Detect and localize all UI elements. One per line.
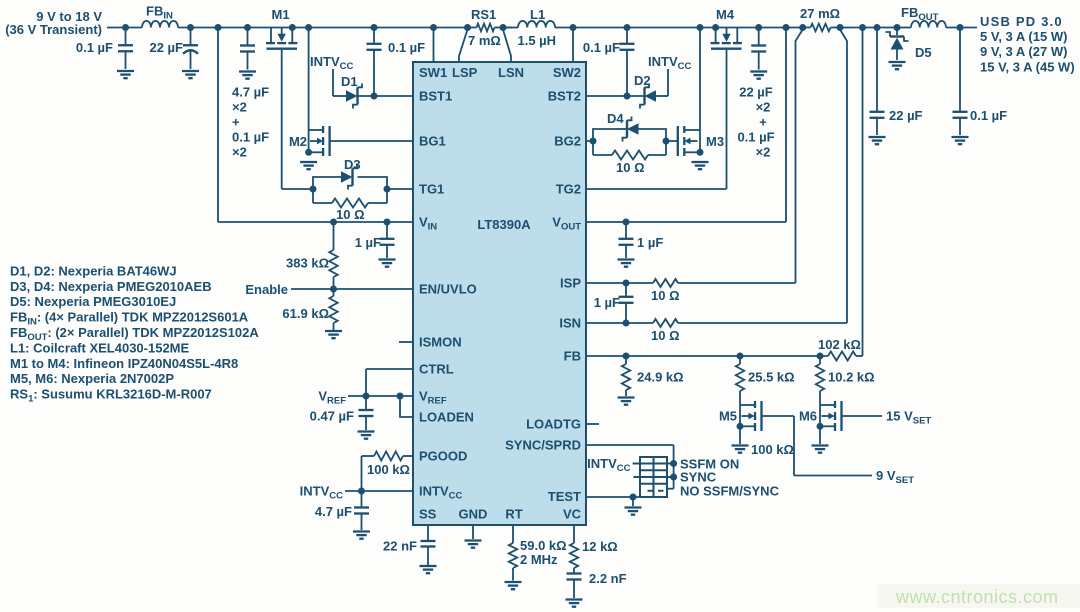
pin VC (563, 507, 582, 522)
pin LOADTG (526, 417, 581, 432)
node E (305, 24, 312, 31)
svg-text:0.1 µF: 0.1 µF (388, 40, 425, 55)
svg-text:VC: VC (563, 507, 582, 522)
wire M6 gate 15VSET (842, 415, 883, 417)
svg-text:LOADEN: LOADEN (419, 410, 474, 425)
svg-text:10 Ω: 10 Ω (336, 207, 365, 222)
node SSFM (670, 460, 677, 467)
svg-text:10 Ω: 10 Ω (651, 328, 680, 343)
wire FB (586, 355, 863, 357)
pin FB (564, 349, 581, 364)
node EN (330, 286, 337, 293)
svg-text:0.1 µF: 0.1 µF (583, 40, 620, 55)
watermark band (878, 584, 1080, 608)
node FB b (737, 353, 744, 360)
pin BST1 (419, 89, 452, 104)
resistor RT 59k (509, 525, 567, 581)
wire M1 gate (281, 50, 283, 189)
svg-text:1 µF: 1 µF (637, 235, 663, 250)
capacitor 4.7uF x2 input (240, 28, 255, 70)
svg-text:10 Ω: 10 Ω (616, 160, 645, 175)
capacitor 0.1uF out (953, 28, 1008, 136)
pin TEST (548, 489, 581, 504)
svg-text:Enable: Enable (245, 282, 288, 297)
svg-text:FB: FB (564, 349, 581, 364)
node D (244, 24, 251, 31)
inductor L1 (503, 7, 557, 48)
svg-text:5 V, 3 A (15 W): 5 V, 3 A (15 W) (980, 29, 1067, 44)
capacitor 22uF input (149, 28, 198, 70)
node INTVCC (358, 488, 365, 495)
svg-text:EN/UVLO: EN/UVLO (419, 282, 477, 297)
wire BG2 to M3 (666, 140, 678, 142)
ground (566, 600, 583, 607)
pin CTRL (419, 362, 454, 377)
label SYNC (680, 470, 717, 485)
capacitor 1uF VOUT (619, 222, 664, 258)
wire SW1 stub (433, 28, 435, 63)
svg-text:0.1 µF: 0.1 µF (76, 40, 113, 55)
wire BST2 (586, 95, 645, 97)
svg-text:100 kΩ: 100 kΩ (367, 462, 410, 477)
ground (692, 162, 709, 169)
svg-text:BG2: BG2 (554, 134, 581, 149)
capacitor 0.1uF BST2 (583, 28, 635, 97)
wire BST1 (374, 95, 413, 97)
svg-text:PGOOD: PGOOD (419, 449, 467, 464)
label NO SSFM/SYNC (680, 484, 780, 499)
svg-text:SS: SS (419, 507, 437, 522)
svg-text:22 µF: 22 µF (889, 108, 923, 123)
svg-text:4.7 µF: 4.7 µF (315, 504, 352, 519)
svg-text:M5: M5 (719, 409, 737, 424)
wire M6 source gnd (819, 426, 821, 444)
svg-text:LOADTG: LOADTG (526, 417, 581, 432)
pin VIN (419, 215, 437, 233)
wire VIN drop (217, 28, 219, 223)
node SW2 top (570, 24, 577, 31)
wire VOUT (586, 221, 786, 223)
wire ISN (586, 322, 847, 324)
label Enable (245, 282, 288, 297)
pin INTVCC (419, 484, 462, 502)
svg-text:4.7 µF: 4.7 µF (232, 85, 269, 100)
svg-text:SYNC/SPRD: SYNC/SPRD (505, 438, 581, 453)
svg-text:×2: ×2 (756, 145, 771, 160)
svg-text:M2: M2 (289, 134, 307, 149)
capacitor 4.7uF (315, 491, 369, 530)
svg-text:59.0 kΩ: 59.0 kΩ (520, 538, 567, 553)
capacitor 1uF VIN (355, 222, 395, 258)
ground (505, 582, 522, 589)
node VOUT cap (623, 219, 630, 226)
svg-text:27 mΩ: 27 mΩ (800, 6, 840, 21)
wire PGOOD drop (361, 456, 363, 491)
node L (894, 24, 901, 31)
node VREF a (363, 393, 370, 400)
node M5 source (737, 423, 744, 430)
pin TG2 (556, 182, 581, 197)
ground (358, 432, 375, 439)
ground (379, 260, 396, 267)
svg-text:2.2 nF: 2.2 nF (589, 571, 627, 586)
svg-text:M3: M3 (706, 134, 724, 149)
node BG2 left (590, 138, 597, 145)
node TG1 right (384, 186, 391, 193)
ground (239, 72, 256, 79)
wire INTVCC stub D2 (667, 69, 669, 96)
transistor M5 (719, 391, 762, 431)
pin GND (459, 507, 488, 522)
transistor M4 (711, 7, 742, 49)
svg-text:15 V, 3 A (45 W): 15 V, 3 A (45 W) (980, 60, 1075, 75)
op-amp U1 LT8390A box (413, 62, 586, 525)
node TEST (630, 494, 637, 501)
pin BST2 (548, 89, 581, 104)
node BST2 (624, 93, 631, 100)
diode D2 (634, 73, 668, 109)
resistor 100k PGOOD (362, 452, 414, 478)
pin LSP (452, 65, 478, 80)
resistor 102k (818, 337, 861, 361)
svg-text:M1 to M4: Infineon IPZ40N04S5L: M1 to M4: Infineon IPZ40N04S5L-4R8 (10, 356, 238, 371)
capacitor 0.1uF input (76, 28, 133, 70)
node M (957, 24, 964, 31)
node RS1 right (500, 24, 507, 31)
wire M5 source gnd (739, 426, 741, 444)
node TG1 left (310, 186, 317, 193)
pin SW1 (419, 65, 447, 80)
svg-text:D5: D5 (915, 45, 932, 60)
svg-text:×2: ×2 (232, 145, 247, 160)
svg-text:M1: M1 (272, 7, 290, 22)
label INTVCC left (300, 484, 343, 502)
node M6 source (817, 423, 824, 430)
svg-text:LSP: LSP (452, 65, 478, 80)
network D3 frame (313, 177, 387, 203)
label output (980, 14, 1075, 75)
wire Enable (291, 288, 413, 290)
svg-text:L1: L1 (530, 7, 545, 22)
diode D1 (341, 74, 374, 109)
wire SYNC/SPRD (586, 445, 674, 489)
label 9VSET (876, 468, 914, 486)
ferrite bead FBOUT (901, 5, 946, 28)
pin PGOOD (419, 449, 467, 464)
svg-text:1 µF: 1 µF (594, 295, 620, 310)
node BG2 right (663, 138, 670, 145)
wire 102k drop (862, 28, 864, 357)
svg-text:10.2 kΩ: 10.2 kΩ (828, 370, 875, 385)
capacitor 22uF out (870, 28, 923, 136)
svg-text:1 µF: 1 µF (355, 235, 381, 250)
capacitor 1uF ISP-ISN (594, 283, 634, 323)
svg-text:CTRL: CTRL (419, 362, 454, 377)
wire INTVCC stub D1 (333, 69, 346, 96)
svg-text:1.5 µH: 1.5 µH (518, 33, 557, 48)
svg-text:×2: ×2 (756, 100, 771, 115)
capacitor 2.2nF (567, 568, 627, 598)
label 15VSET (886, 409, 931, 427)
svg-text:ISP: ISP (560, 276, 581, 291)
svg-text:RS1: RS1 (471, 7, 496, 22)
watermark text (895, 587, 1059, 607)
node G (624, 24, 631, 31)
transistor M1 (266, 7, 297, 49)
ferrite bead FBIN (142, 4, 178, 28)
node input A (122, 24, 129, 31)
node M3 source (697, 149, 704, 156)
transistor M2 (289, 126, 330, 156)
label VREF (318, 389, 346, 407)
diode D5 (886, 28, 932, 61)
pin BG2 (554, 134, 581, 149)
node ISN (623, 320, 630, 327)
wire VREF (348, 395, 413, 397)
svg-text:LSN: LSN (498, 65, 524, 80)
node J (859, 24, 866, 31)
svg-text:D1: D1 (341, 74, 358, 89)
wire M5 gate 9VSET (762, 416, 873, 476)
svg-text:ISN: ISN (559, 316, 581, 331)
svg-text:22 µF: 22 µF (739, 85, 773, 100)
jumper block (633, 457, 674, 497)
diode D3 (341, 157, 361, 190)
pin BG1 (419, 134, 446, 149)
wire SW2 stub (572, 28, 574, 63)
label 4.7uF x2 + 0.1uF x2 (232, 85, 269, 160)
wire INTVCC (345, 490, 413, 492)
capacitor 22nF SS (383, 525, 435, 565)
svg-text:D5: Nexperia PMEG3010EJ: D5: Nexperia PMEG3010EJ (10, 294, 176, 309)
resistor 61.9k (282, 289, 337, 330)
ground (889, 62, 906, 69)
svg-text:D3, D4: Nexperia PMEG2010AEB: D3, D4: Nexperia PMEG2010AEB (10, 279, 212, 294)
svg-text:GND: GND (459, 507, 488, 522)
ground (732, 446, 749, 453)
pin SYNC/SPRD (505, 438, 581, 453)
pin LSN (498, 65, 524, 80)
ground (618, 260, 635, 267)
svg-text:USB PD 3.0: USB PD 3.0 (980, 14, 1063, 29)
node F (371, 24, 378, 31)
pin SS (419, 507, 437, 522)
pin EN/UVLO (419, 282, 477, 297)
svg-text:BST2: BST2 (548, 89, 581, 104)
ground (812, 446, 829, 453)
svg-text:L1: Coilcraft XEL4030-152ME: L1: Coilcraft XEL4030-152ME (10, 340, 190, 355)
svg-text:10 Ω: 10 Ω (651, 288, 680, 303)
svg-text:+: + (759, 115, 767, 130)
wire input rail left (107, 27, 142, 29)
resistor 10R ISP (651, 279, 680, 303)
svg-text:383 kΩ: 383 kΩ (286, 256, 329, 271)
wire BG2 (586, 140, 593, 142)
resistor 10R BG2 (593, 151, 666, 176)
ground (625, 508, 642, 515)
label INTVCC D1 (310, 54, 353, 72)
ground (869, 137, 886, 144)
transistor M3 (678, 126, 724, 156)
node M1 source (289, 24, 296, 31)
resistor VC 12k (570, 525, 618, 568)
node FB c (817, 353, 824, 360)
svg-text:www.cntronics.com: www.cntronics.com (895, 587, 1059, 607)
svg-text:0.1 µF: 0.1 µF (232, 130, 269, 145)
resistor 383k (286, 222, 338, 289)
svg-text:0.1 µF: 0.1 µF (970, 108, 1007, 123)
capacitor 22uF x2 output (751, 28, 766, 70)
node RS1 left (464, 24, 471, 31)
component list (10, 263, 259, 404)
svg-text:SW1: SW1 (419, 65, 447, 80)
label SSFM ON (680, 457, 739, 472)
svg-text:7 mΩ: 7 mΩ (468, 33, 501, 48)
svg-text:RT: RT (505, 507, 522, 522)
node K (874, 24, 881, 31)
node SW1 top (430, 24, 437, 31)
ground (618, 398, 635, 405)
wire ISMON stub (399, 341, 413, 343)
wire CTRL (366, 369, 413, 396)
label INTVCC jumper (587, 456, 630, 474)
wire M3 drain (699, 28, 701, 153)
pin VREF (419, 389, 447, 407)
svg-text:D4: D4 (607, 111, 624, 126)
svg-text:TEST: TEST (548, 489, 581, 504)
node 27m left (799, 24, 806, 31)
resistor 10R TG1 (313, 199, 387, 223)
svg-text:0.1 µF: 0.1 µF (737, 130, 774, 145)
wire TG1 (387, 188, 413, 190)
node M2 source (305, 149, 312, 156)
svg-text:D1, D2: Nexperia BAT46WJ: D1, D2: Nexperia BAT46WJ (10, 263, 177, 278)
svg-text:LT8390A: LT8390A (477, 217, 531, 232)
svg-text:NO SSFM/SYNC: NO SSFM/SYNC (680, 484, 780, 499)
ground (750, 72, 767, 79)
pin RT (505, 507, 522, 522)
wire TG1 left (282, 188, 313, 190)
ground (117, 71, 134, 78)
svg-text:24.9 kΩ: 24.9 kΩ (637, 370, 684, 385)
svg-text:TG1: TG1 (419, 182, 444, 197)
label 22uF x2 + 0.1uF x2 (737, 85, 774, 160)
node VIN divider (330, 219, 337, 226)
svg-text:+: + (232, 115, 240, 130)
node I (755, 24, 762, 31)
node ISP (623, 280, 630, 287)
diode D4 (607, 111, 639, 142)
svg-text:(36 V Transient): (36 V Transient) (5, 22, 102, 37)
wire LSN kelvin (503, 30, 511, 63)
svg-text:M5, M6: Nexperia 2N7002P: M5, M6: Nexperia 2N7002P (10, 371, 174, 386)
node SYNC (670, 474, 677, 481)
resistor 10R ISN (651, 319, 680, 343)
pin TG1 (419, 182, 444, 197)
wire ISP (586, 282, 796, 284)
node B (187, 24, 194, 31)
pin LOADEN (419, 410, 474, 425)
wire VOUT rise (785, 28, 787, 223)
wire VIN (218, 221, 413, 223)
svg-text:22 nF: 22 nF (383, 539, 417, 554)
svg-text:SYNC: SYNC (680, 470, 717, 485)
wire GND pin (472, 525, 474, 539)
svg-text:100 kΩ: 100 kΩ (751, 442, 794, 457)
network D4 frame (593, 129, 666, 155)
svg-text:M4: M4 (716, 7, 735, 22)
label INTVCC D2 (648, 54, 691, 72)
pin VOUT (552, 215, 581, 233)
ground (182, 71, 199, 78)
svg-text:TG2: TG2 (556, 182, 581, 197)
resistor 27mOhm (800, 6, 840, 31)
ground (353, 532, 370, 539)
wire ISN kelvin (840, 30, 847, 324)
svg-text:61.9 kΩ: 61.9 kΩ (282, 306, 329, 321)
node 27m right (837, 24, 844, 31)
label 100k (751, 442, 794, 457)
ground (420, 566, 437, 573)
svg-text:0.47 µF: 0.47 µF (310, 409, 354, 424)
label LT8390A (477, 217, 531, 232)
node VIN cap (384, 219, 391, 226)
svg-text:BST1: BST1 (419, 89, 452, 104)
svg-text:2 MHz: 2 MHz (520, 552, 558, 567)
ground (325, 331, 342, 338)
node M4 left (712, 24, 719, 31)
ground (300, 162, 317, 169)
resistor RS1 (468, 7, 504, 48)
transistor M6 (799, 391, 842, 431)
pin ISN (559, 316, 581, 331)
wire TEST (586, 496, 640, 498)
svg-text:25.5 kΩ: 25.5 kΩ (748, 370, 795, 385)
resistor 24.9k (622, 356, 684, 396)
wire rail (178, 27, 468, 29)
wire rail end (840, 27, 977, 29)
wire LOADEN (400, 396, 413, 417)
svg-text:M6: M6 (799, 409, 817, 424)
resistor 10.2k (816, 356, 875, 391)
wire LSP kelvin (459, 30, 468, 63)
wire LOADTG stub (586, 423, 599, 425)
ground (952, 137, 969, 144)
node FB a (623, 353, 630, 360)
pin ISMON (419, 335, 462, 350)
svg-text:SW2: SW2 (553, 65, 581, 80)
wire SW1 to M2 drain (308, 28, 310, 153)
capacitor 0.1uF BST1 (367, 28, 426, 97)
wire TEST gnd (632, 497, 634, 506)
node BST1 (371, 93, 378, 100)
resistor 25.5k (736, 356, 795, 391)
capacitor 0.47uF (310, 396, 374, 430)
wire BG1 (330, 140, 413, 142)
svg-text:BG1: BG1 (419, 134, 446, 149)
wire ISP kelvin (796, 30, 803, 284)
svg-text:12 kΩ: 12 kΩ (582, 539, 618, 554)
input voltage label (5, 9, 102, 37)
svg-text:ISMON: ISMON (419, 335, 462, 350)
node C (215, 24, 222, 31)
ground (465, 541, 482, 548)
node H (697, 24, 704, 31)
node VREF b (397, 393, 404, 400)
svg-text:22 µF: 22 µF (149, 40, 183, 55)
node VOUT top (783, 24, 790, 31)
pin SW2 (553, 65, 581, 80)
